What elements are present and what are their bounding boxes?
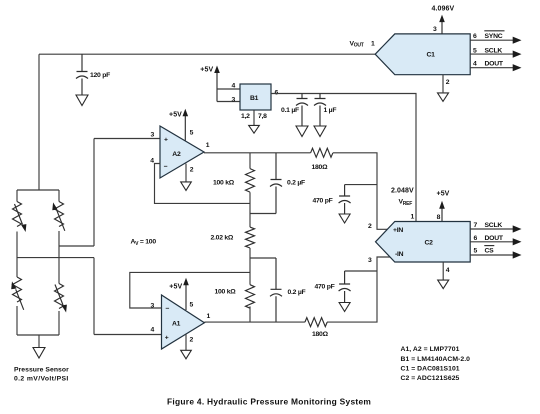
wire: A2 output to 180 ohm (204, 152, 311, 154)
svg-text:470 pF: 470 pF (313, 198, 333, 205)
4.096V supply C1 pin 3 (432, 6, 455, 34)
ADC C2 (376, 222, 471, 263)
wire: bridge ground stem (38, 335, 40, 347)
capacitor 0.2 uF (top) (270, 153, 305, 214)
svg-text:C1 = DAC081S101: C1 = DAC081S101 (401, 366, 460, 373)
op-amp A1 (162, 295, 205, 349)
ground (C2) (438, 280, 449, 289)
wire: C2 pin 4 ground stem (442, 262, 444, 280)
svg-text:+: + (164, 137, 168, 144)
C2 output DOUT pin 6 (470, 235, 521, 246)
wire: B1 pin 4 stub (217, 88, 240, 90)
ground (470 pF bottom) (339, 303, 350, 312)
wire: A1 inverting input feedback (130, 272, 250, 308)
svg-text:+: + (165, 334, 169, 341)
C2 output CS pin 5 (470, 246, 521, 259)
svg-text:3: 3 (433, 26, 437, 33)
ground (A2) (181, 182, 192, 191)
wire: bridge right tap up to A2 +input (94, 139, 160, 247)
wire: B1 ground stem (253, 110, 255, 125)
ground (C1) (438, 93, 449, 102)
svg-text:3: 3 (151, 132, 155, 139)
parts list (401, 346, 471, 382)
svg-text:C2 = ADC121S625: C2 = ADC121S625 (401, 375, 460, 382)
svg-text:7,8: 7,8 (258, 113, 267, 120)
B1 pin labels (232, 83, 279, 121)
svg-text:4.096V: 4.096V (432, 6, 455, 13)
svg-text:0.2 µF: 0.2 µF (288, 289, 306, 296)
svg-text:4: 4 (151, 327, 155, 334)
svg-text:180Ω: 180Ω (312, 164, 329, 171)
svg-text:2: 2 (190, 167, 194, 174)
capacitor 0.2 uF (bottom) (270, 258, 306, 322)
svg-text:2: 2 (446, 79, 450, 86)
C2 input pin labels (368, 223, 372, 264)
wire: 180 ohm to C2 +IN (333, 153, 388, 230)
resistor 180 ohm (bottom) (305, 318, 329, 338)
wire: cap jog to divider node (bottom) (250, 257, 276, 259)
svg-text:3: 3 (368, 257, 372, 264)
svg-text:100 kΩ: 100 kΩ (213, 180, 235, 187)
svg-text:6: 6 (473, 33, 477, 40)
svg-text:2.02 kΩ: 2.02 kΩ (211, 235, 234, 242)
svg-text:SCLK: SCLK (485, 47, 503, 54)
wire: top rail from bridge to C1 Vout (39, 53, 375, 55)
svg-text:DOUT: DOUT (485, 235, 504, 242)
svg-text:2: 2 (368, 223, 372, 230)
resistor 2.02 kohm (211, 227, 255, 248)
wire: A1 output line (204, 321, 305, 323)
C1 output SCLK pin 5 (470, 47, 521, 57)
svg-text:C2: C2 (425, 240, 434, 247)
+5V supply A1 (169, 278, 189, 310)
bridge bottom rail (17, 334, 59, 336)
variable resistor bottom-right (55, 284, 67, 313)
A2 pin labels (150, 130, 210, 174)
svg-text:8: 8 (437, 214, 441, 221)
svg-text:2: 2 (190, 337, 194, 344)
resistor 100 kohm (bottom) (215, 285, 255, 322)
svg-text:5: 5 (474, 248, 478, 255)
svg-text:5: 5 (190, 301, 194, 308)
svg-text:100 kΩ: 100 kΩ (215, 289, 237, 296)
svg-text:SCLK: SCLK (485, 222, 503, 229)
svg-text:5: 5 (190, 130, 194, 137)
C1 output SYNC pin 6 (470, 31, 521, 44)
svg-text:1: 1 (371, 41, 375, 48)
svg-text:1: 1 (411, 213, 415, 220)
svg-text:3: 3 (232, 96, 236, 103)
ground (470 pF top) (339, 214, 350, 223)
svg-text:−: − (164, 163, 168, 170)
variable resistor bottom-left (11, 277, 24, 310)
svg-text:A1: A1 (172, 321, 181, 328)
svg-text:1: 1 (207, 313, 211, 320)
ground (B1) (249, 125, 260, 133)
svg-text:+5V: +5V (169, 284, 182, 291)
wire: cap jog to divider node (top) (250, 213, 276, 215)
ground (1 uF) (314, 126, 326, 137)
capacitor 470 pF (bottom) (315, 271, 378, 302)
resistor 180 ohm (top) (311, 148, 333, 171)
svg-text:6: 6 (275, 89, 279, 96)
svg-text:A2: A2 (172, 151, 181, 158)
svg-text:4: 4 (473, 61, 477, 68)
label Vout and pin 1 (350, 40, 376, 48)
svg-text:C1: C1 (427, 52, 436, 59)
svg-text:Pressure Sensor: Pressure Sensor (14, 367, 69, 374)
voltage reference B1 (240, 84, 271, 110)
wire: A2 pin 2 to ground (185, 164, 187, 182)
svg-text:120 pF: 120 pF (90, 72, 110, 79)
ground (0.1 uF) (296, 126, 308, 137)
svg-text:B1 = LM4140ACM-2.0: B1 = LM4140ACM-2.0 (401, 356, 471, 363)
variable resistor top-right (52, 202, 65, 231)
svg-text:2.048V: 2.048V (391, 188, 414, 195)
svg-text:7: 7 (474, 222, 478, 229)
svg-text:+IN: +IN (393, 227, 403, 234)
A1 pin labels (151, 301, 211, 343)
svg-text:1: 1 (206, 142, 210, 149)
variable resistor top-left (13, 202, 27, 233)
pressure-sensor bridge: top rail (17, 189, 59, 191)
svg-text:+5V: +5V (200, 67, 213, 74)
op-amp A2 (160, 126, 204, 178)
svg-text:+5V: +5V (437, 190, 450, 197)
svg-text:+5V: +5V (169, 112, 182, 119)
svg-text:Figure 4. Hydraulic Pressure M: Figure 4. Hydraulic Pressure Monitoring … (167, 397, 371, 407)
wire: divider middle segment (249, 248, 251, 285)
wire: bridge mid rail down to A1 +input (94, 258, 162, 335)
label 2.048V Vref (391, 188, 414, 208)
capacitor 1 uF (314, 94, 336, 126)
wire: left vertical from top rail down to bridge top (38, 54, 40, 190)
ground (bridge) (33, 348, 45, 359)
svg-text:DOUT: DOUT (485, 61, 504, 68)
capacitor 120 pF (76, 54, 110, 94)
ground (A1) (181, 350, 192, 359)
svg-text:4: 4 (446, 267, 450, 274)
+5V supply B1 (200, 66, 220, 102)
svg-text:B1: B1 (250, 95, 259, 102)
svg-text:1 µF: 1 µF (324, 107, 337, 114)
capacitor 0.1 uF (281, 94, 308, 126)
resistor 100 kohm (top) (213, 153, 255, 227)
svg-text:4: 4 (232, 83, 236, 90)
bridge left column wire segments (16, 190, 18, 335)
C2 output SCLK pin 7 (470, 222, 521, 232)
wire: B1 pin6 reference line to C2 pin 1 (271, 94, 416, 222)
svg-text:5: 5 (473, 47, 477, 54)
+5V supply C2 pin 8 (437, 190, 450, 221)
capacitor 470 pF (top) (313, 185, 378, 214)
svg-text:A1, A2 = LMP7701: A1, A2 = LMP7701 (401, 346, 460, 353)
bridge mid-left rail to A1 branch (17, 257, 94, 259)
svg-text:1,2: 1,2 (241, 113, 250, 120)
svg-text:0.2 µF: 0.2 µF (287, 180, 305, 187)
svg-text:0.1 µF: 0.1 µF (281, 107, 299, 114)
wire: A1 pin 2 to ground (185, 334, 187, 350)
svg-text:180Ω: 180Ω (312, 331, 329, 338)
bridge right tap to A2 branch (59, 245, 94, 247)
svg-text:-IN: -IN (395, 251, 404, 258)
svg-text:0.2 mV/Volt/PSI: 0.2 mV/Volt/PSI (14, 376, 69, 383)
svg-text:CS: CS (485, 248, 495, 255)
svg-text:4: 4 (150, 157, 154, 164)
svg-text:470 pF: 470 pF (315, 284, 335, 291)
wire: C1 pin 2 ground stem (442, 75, 444, 93)
+5V supply A2 (169, 109, 188, 141)
wire: B1 pin 3 stub (217, 101, 240, 103)
svg-text:−: − (166, 306, 170, 313)
C1 output DOUT pin 4 (470, 61, 521, 72)
wire: A2 inverting input feedback (155, 164, 251, 204)
ground (below 120 pF) (76, 95, 88, 106)
svg-text:6: 6 (474, 235, 478, 242)
DAC C1 (375, 34, 470, 75)
bridge right column wire segments (58, 190, 60, 335)
wire: 180 ohm to C2 -IN (327, 257, 391, 322)
svg-text:SYNC: SYNC (485, 33, 503, 40)
